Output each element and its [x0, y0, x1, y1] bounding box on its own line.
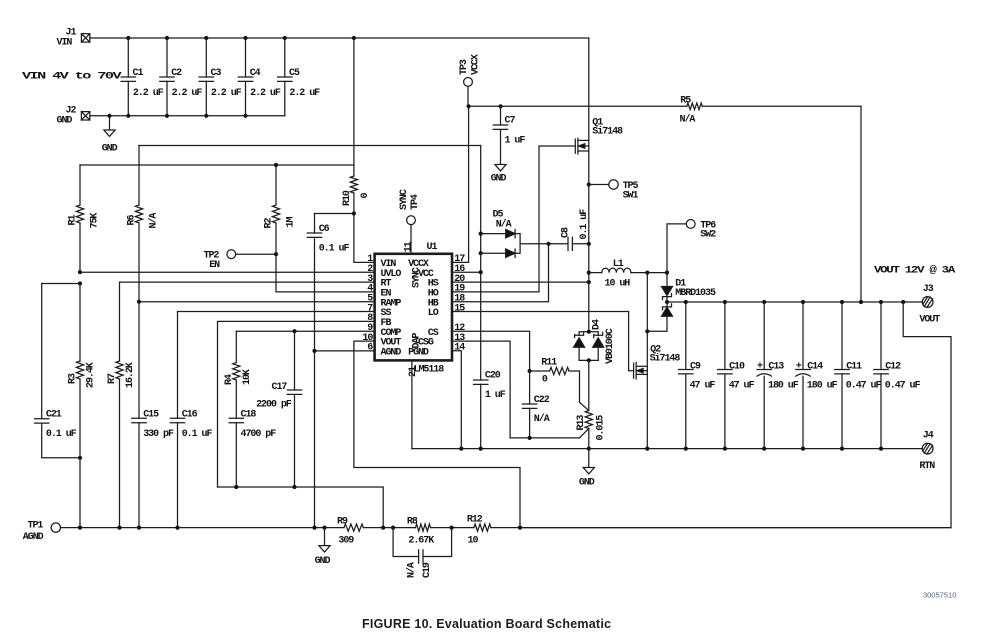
- svg-text:C3: C3: [211, 68, 222, 79]
- resistor R5 N/A: [680, 96, 862, 303]
- U1 SYNC label: [411, 267, 422, 288]
- U1 pin 21 DAP wire: [408, 360, 419, 448]
- svg-text:0.1 uF: 0.1 uF: [182, 429, 213, 440]
- wire VIN drop to divider: [353, 38, 355, 165]
- capacitor C2 2.2uF: [160, 38, 203, 118]
- node VIN-C1: [126, 36, 130, 40]
- wire divider feed line: [80, 164, 354, 166]
- node C8-SW1: [587, 242, 591, 246]
- wire R9 to R8: [363, 526, 415, 530]
- capacitor C19 N/A: [393, 528, 452, 578]
- svg-text:0.015: 0.015: [595, 415, 606, 441]
- capacitor C3 2.2uF: [199, 38, 242, 118]
- node L1 out: [645, 271, 649, 275]
- label VOUT 12V: [874, 264, 955, 276]
- svg-text:D4: D4: [592, 319, 603, 330]
- wire AGND row: [312, 349, 374, 353]
- svg-text:R8: R8: [407, 517, 418, 528]
- wire D5 out to C8: [520, 243, 568, 245]
- wire LO row: [452, 312, 634, 371]
- U1 pin 11 SYNC wire: [403, 225, 414, 253]
- resistor R11 0: [528, 357, 589, 410]
- svg-text:R6: R6: [127, 215, 138, 226]
- wire Q2 source: [646, 374, 648, 448]
- wire Q1 drain column: [588, 38, 590, 140]
- svg-text:R12: R12: [467, 515, 483, 526]
- test point TP6 SW2: [667, 220, 716, 273]
- svg-text:2200 pF: 2200 pF: [256, 400, 292, 411]
- svg-text:10: 10: [468, 536, 479, 547]
- svg-text:C20: C20: [485, 371, 501, 382]
- svg-text:180 uF: 180 uF: [807, 380, 838, 391]
- connector J1 (VIN): [57, 28, 90, 49]
- svg-text:2.2 uF: 2.2 uF: [289, 88, 320, 99]
- svg-text:47 uF: 47 uF: [690, 380, 716, 391]
- svg-text:L1: L1: [613, 259, 624, 270]
- svg-text:21: 21: [408, 366, 419, 377]
- svg-text:VOUT 12V @ 3A: VOUT 12V @ 3A: [874, 264, 955, 276]
- test point TP3 VCCX: [459, 54, 481, 106]
- inductor L1 10uH: [589, 259, 667, 290]
- node R2 top: [274, 163, 278, 167]
- svg-text:N/A: N/A: [148, 213, 160, 229]
- svg-text:N/A: N/A: [405, 562, 417, 578]
- ground symbol C7: [491, 165, 507, 185]
- svg-text:N/A: N/A: [534, 413, 550, 425]
- svg-text:J4: J4: [923, 431, 934, 442]
- svg-text:0.47 uF: 0.47 uF: [846, 380, 882, 391]
- wire D4 to R13: [588, 360, 590, 410]
- wire HS row: [452, 280, 591, 284]
- capacitor C10 47 uF: [718, 300, 755, 451]
- svg-text:C4: C4: [250, 68, 261, 79]
- wire output sense loop: [520, 302, 951, 528]
- wire RT row: [120, 281, 375, 283]
- node VIN-C4: [243, 36, 247, 40]
- svg-text:10 uH: 10 uH: [605, 279, 631, 290]
- svg-text:C19: C19: [422, 562, 433, 578]
- ground symbol input: [102, 114, 118, 155]
- resistor R1 75K: [68, 165, 101, 272]
- test point TP4 SYNC: [399, 189, 421, 224]
- svg-text:Si7148: Si7148: [650, 353, 681, 365]
- op-amp U1 LM5118 body: [375, 242, 452, 376]
- wire R12 to sense: [491, 526, 951, 530]
- svg-text:U1: U1: [427, 242, 438, 253]
- wire VIN rail: [90, 37, 589, 39]
- wire COMP row: [236, 329, 374, 333]
- capacitor C8 0.1uF: [560, 209, 590, 251]
- svg-text:2.2 uF: 2.2 uF: [211, 88, 242, 99]
- svg-text:VIN 4V to 70V: VIN 4V to 70V: [22, 72, 122, 83]
- wire SW1 column: [588, 151, 590, 332]
- node TP6 riser: [665, 271, 669, 275]
- test point TP2 EN: [204, 250, 236, 271]
- wire RAMP row: [137, 300, 375, 304]
- svg-text:GND: GND: [491, 174, 507, 185]
- svg-text:C14: C14: [807, 361, 823, 372]
- node VCC junction: [479, 270, 483, 274]
- wire HB riser: [452, 244, 549, 302]
- node D1 to Q2 drain: [645, 329, 649, 333]
- svg-text:4700 pF: 4700 pF: [241, 429, 277, 440]
- svg-text:0.1 uF: 0.1 uF: [46, 429, 77, 440]
- test point TP1 AGND: [23, 521, 61, 544]
- svg-text:2.2 uF: 2.2 uF: [133, 88, 164, 99]
- svg-text:10K: 10K: [242, 369, 253, 385]
- svg-text:C18: C18: [241, 410, 257, 421]
- wire R10 bottom to pin1: [354, 214, 375, 263]
- svg-text:VCCX: VCCX: [470, 54, 481, 75]
- connector J3 VOUT: [919, 284, 940, 326]
- transistor Q2 Si7148: [634, 344, 681, 379]
- svg-text:R13: R13: [576, 415, 587, 431]
- svg-text:C10: C10: [729, 361, 745, 372]
- node gnd stub: [322, 526, 326, 530]
- doc number: [923, 591, 956, 600]
- resistor R4 10K: [224, 331, 253, 418]
- node VIN-C3: [204, 36, 208, 40]
- wire R8 to R12: [431, 526, 474, 530]
- resistor R10 0: [342, 165, 371, 214]
- svg-text:15: 15: [454, 303, 465, 314]
- svg-text:180 uF: 180 uF: [768, 380, 799, 391]
- svg-text:AGND: AGND: [23, 532, 44, 543]
- wire SS row: [178, 312, 375, 419]
- svg-text:AGND: AGND: [381, 348, 402, 359]
- svg-text:LO: LO: [428, 308, 439, 319]
- svg-text:C21: C21: [46, 410, 62, 421]
- capacitor C9 47 uF: [679, 300, 716, 451]
- wire UVLO row: [78, 270, 375, 274]
- svg-text:29.4K: 29.4K: [86, 362, 97, 388]
- svg-text:R1: R1: [68, 215, 79, 226]
- svg-text:11: 11: [403, 241, 414, 252]
- wire CSG sense diag: [580, 429, 589, 438]
- capacitor C15 330pF: [132, 302, 174, 528]
- wire comp ground run: [218, 485, 384, 528]
- svg-text:R3: R3: [68, 373, 79, 384]
- wire VOUT sense row: [354, 341, 520, 527]
- capacitor C11 0.47 uF: [835, 300, 882, 451]
- node VIN-C2: [165, 36, 169, 40]
- svg-text:0.1 uF: 0.1 uF: [319, 244, 350, 255]
- capacitor C20 1uF: [474, 371, 506, 402]
- svg-text:TP4: TP4: [410, 194, 421, 210]
- wire PGND pin wire: [452, 351, 461, 449]
- wire VCCX feed line: [469, 105, 687, 107]
- svg-text:C7: C7: [505, 116, 516, 127]
- svg-text:330 pF: 330 pF: [143, 429, 174, 440]
- capacitor C5 2.2uF: [278, 38, 321, 116]
- capacitor C1 2.2uF: [121, 38, 164, 118]
- svg-text:R5: R5: [680, 96, 691, 107]
- svg-text:TP1: TP1: [28, 521, 44, 532]
- svg-text:1 uF: 1 uF: [485, 390, 506, 401]
- svg-text:J3: J3: [923, 284, 934, 295]
- node VIN-C5: [283, 36, 287, 40]
- node C15 gnd: [137, 526, 141, 530]
- svg-text:1M: 1M: [286, 217, 297, 228]
- svg-text:309: 309: [338, 536, 354, 547]
- capacitor C4 2.2uF: [238, 38, 281, 118]
- wire FB row: [218, 321, 375, 487]
- ground symbol AGND: [315, 528, 331, 567]
- svg-text:GND: GND: [315, 556, 331, 567]
- node Q2 gnd: [645, 447, 649, 451]
- capacitor C13 180 uF: [757, 300, 799, 451]
- svg-text:SYNC: SYNC: [399, 189, 410, 210]
- svg-text:C12: C12: [885, 361, 901, 372]
- svg-text:N/A: N/A: [680, 114, 696, 126]
- svg-text:C13: C13: [768, 361, 784, 372]
- svg-text:C9: C9: [690, 361, 701, 372]
- svg-text:16.2K: 16.2K: [125, 362, 136, 388]
- U1 DAP label: [411, 333, 422, 349]
- svg-text:C15: C15: [143, 410, 159, 421]
- svg-text:C11: C11: [846, 361, 862, 372]
- capacitor C6 0.1uF: [307, 214, 354, 528]
- svg-text:SW1: SW1: [623, 190, 639, 201]
- resistor R8 2.67K: [407, 517, 434, 547]
- svg-text:75K: 75K: [90, 213, 101, 229]
- U1 pin labels: [362, 254, 465, 358]
- resistor R2 1M: [264, 165, 297, 254]
- svg-text:C8: C8: [560, 227, 571, 238]
- diode D5 N/A (dual boot diode): [479, 210, 520, 258]
- wire TP2 to EN: [236, 252, 375, 292]
- svg-text:TP3: TP3: [459, 59, 470, 75]
- resistor R9 309: [337, 517, 363, 547]
- svg-text:R9: R9: [337, 517, 348, 528]
- svg-text:47 uF: 47 uF: [729, 380, 755, 391]
- caption figure: [362, 617, 611, 631]
- svg-text:VB0100C: VB0100C: [605, 328, 616, 364]
- capacitor C17 2200pF: [256, 331, 302, 487]
- node C6 gnd: [312, 526, 316, 530]
- svg-text:R10: R10: [342, 190, 353, 206]
- capacitor C12 0.47 uF: [874, 300, 921, 451]
- connector J4 RTN: [919, 431, 935, 472]
- svg-text:N/A: N/A: [496, 219, 512, 231]
- svg-text:C1: C1: [133, 68, 144, 79]
- node HB tap: [546, 242, 550, 246]
- wire VCC-D5-C20 column: [480, 146, 482, 449]
- svg-text:VIN: VIN: [57, 38, 73, 49]
- wire Q2 drain column: [646, 273, 648, 367]
- diode D4 VB0100C (dual clamp): [574, 319, 617, 364]
- capacitor C21 0.1uF: [35, 281, 83, 460]
- wire AGND rail: [61, 527, 345, 529]
- label VIN range: [22, 72, 122, 83]
- wire CSG row: [452, 341, 580, 438]
- svg-text:FIGURE 10. Evaluation Board Sc: FIGURE 10. Evaluation Board Schematic: [362, 617, 611, 631]
- svg-text:30057510: 30057510: [923, 591, 956, 600]
- node R10 bottom: [352, 211, 356, 215]
- svg-text:DAP: DAP: [411, 333, 422, 349]
- svg-text:C16: C16: [182, 410, 198, 421]
- svg-text:C5: C5: [289, 68, 300, 79]
- capacitor C22 N/A: [522, 371, 549, 440]
- svg-text:1 uF: 1 uF: [505, 136, 526, 147]
- svg-text:SW2: SW2: [700, 230, 716, 241]
- capacitor C16 0.1uF: [170, 410, 212, 528]
- resistor R13 0.015: [576, 411, 606, 449]
- wire R6 top to D5 anode column: [139, 145, 481, 147]
- svg-text:2.2 uF: 2.2 uF: [250, 88, 281, 99]
- svg-text:R7: R7: [107, 373, 118, 384]
- svg-text:R2: R2: [264, 218, 275, 229]
- svg-text:2.2 uF: 2.2 uF: [172, 88, 203, 99]
- wire VOUT rail: [667, 301, 922, 303]
- svg-text:GND: GND: [102, 144, 118, 155]
- node R3 gnd: [78, 526, 82, 530]
- svg-text:GND: GND: [57, 115, 73, 126]
- svg-text:RTN: RTN: [919, 461, 935, 472]
- node PGND pin: [459, 447, 463, 451]
- wire HO riser: [452, 146, 575, 292]
- svg-text:MBRD1035: MBRD1035: [675, 288, 716, 299]
- resistor R7 16.2K: [107, 282, 136, 527]
- resistor R12 10: [467, 515, 491, 547]
- svg-text:VOUT: VOUT: [919, 315, 940, 326]
- diode D1 MBRD1035 (dual schottky): [647, 273, 716, 332]
- node sense drop: [901, 300, 905, 304]
- wire VCCX riser: [452, 106, 469, 262]
- node VIN-R10: [352, 36, 356, 40]
- svg-text:0.47 uF: 0.47 uF: [885, 380, 921, 391]
- node R7 gnd: [117, 526, 121, 530]
- wire PGND rail: [412, 448, 922, 450]
- svg-text:C22: C22: [534, 395, 550, 406]
- node C20 gnd: [479, 447, 483, 451]
- svg-text:Si7148: Si7148: [592, 125, 623, 137]
- node C16 gnd: [175, 526, 179, 530]
- wire VCC row: [452, 271, 481, 273]
- node R5 join: [859, 300, 863, 304]
- ground symbol main: [579, 449, 595, 489]
- capacitor C14 180 uF: [796, 300, 838, 451]
- resistor R6 N/A: [127, 146, 160, 302]
- connector J2 (GND): [57, 105, 90, 126]
- svg-text:SYNC: SYNC: [411, 267, 422, 288]
- svg-text:EN: EN: [209, 260, 220, 271]
- svg-text:2.67K: 2.67K: [408, 536, 434, 547]
- wire CS row: [452, 331, 530, 371]
- node R13 gnd: [587, 447, 591, 451]
- svg-text:C2: C2: [171, 68, 182, 79]
- capacitor C7 1uF: [493, 104, 525, 164]
- svg-text:GND: GND: [579, 478, 595, 489]
- svg-text:C17: C17: [272, 382, 288, 393]
- svg-text:C6: C6: [319, 224, 330, 235]
- svg-text:14: 14: [454, 343, 465, 354]
- wire input gnd rail: [90, 115, 285, 117]
- resistor R3 29.4K: [68, 284, 97, 528]
- node L1 left: [587, 271, 591, 275]
- test point TP5 SW1: [589, 180, 639, 202]
- svg-text:R11: R11: [541, 357, 557, 368]
- capacitor C18 4700pF: [229, 410, 276, 488]
- node TP3 junction: [467, 104, 471, 108]
- transistor Q1 Si7148: [575, 117, 623, 154]
- svg-text:R4: R4: [224, 374, 235, 385]
- node TP5 tap: [587, 182, 591, 186]
